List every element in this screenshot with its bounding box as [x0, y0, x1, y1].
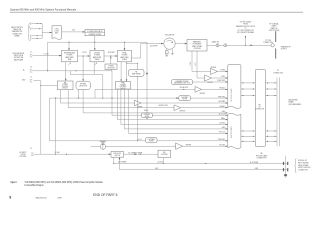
circulator: [164, 34, 175, 50]
wire regulator to supply bus: [94, 36, 96, 43]
circulator ground: [171, 49, 174, 55]
transmit RF output label: [281, 45, 291, 50]
ground bus: [120, 168, 284, 170]
svg-text:CONNECTOR: CONNECTOR: [255, 109, 264, 111]
svg-text:END OF PART 6: END OF PART 6: [93, 193, 118, 197]
svg-text:DETECTOR: DETECTOR: [79, 85, 87, 87]
line PA key with buffer D: [68, 104, 228, 113]
svg-text:8: 8: [9, 196, 11, 200]
svg-text:Figure 3:: Figure 3:: [11, 182, 17, 184]
svg-text:COUPLER: COUPLER: [193, 48, 201, 50]
wire box1 down to IPA control: [65, 62, 67, 81]
stub below coupler: [163, 158, 164, 164]
svg-text:1.2 mW: 1.2 mW: [43, 53, 49, 55]
svg-text:CTRL: CTRL: [55, 29, 59, 31]
vertical boxB down: [78, 90, 79, 99]
svg-text:1.2 mW: 1.2 mW: [55, 152, 61, 154]
caption figure 3: [11, 181, 104, 187]
vertical boxA to PA key: [67, 90, 69, 108]
svg-text:PWR SET: PWR SET: [218, 96, 225, 98]
svg-text:FILTER: FILTER: [182, 99, 187, 101]
svg-text:+28 VDC: +28 VDC: [219, 123, 226, 125]
svg-text:DETECTOR: DETECTOR: [107, 67, 115, 69]
svg-text:OUTPUT: OUTPUT: [281, 48, 287, 50]
directional coupler box: [158, 150, 171, 157]
svg-text:CONNECTOR: CONNECTOR: [12, 33, 23, 35]
svg-text:6881094C31-B: 6881094C31-B: [36, 198, 48, 200]
svg-text:40 W PEP: 40 W PEP: [108, 52, 115, 54]
wire box3 to circulator: [132, 44, 164, 58]
node: exciter RF input label: [20, 152, 28, 158]
temp sensor rounded box: [127, 62, 145, 141]
svg-text:BUFFER: BUFFER: [200, 93, 205, 95]
tall box T1a: PA interconnect upper: [228, 64, 241, 108]
node: coax cable text block: [269, 23, 280, 32]
wire torn box to regulator: [62, 31, 86, 33]
backplane P2 lines: [277, 77, 279, 146]
svg-text:TEMP SENSE: TEMP SENSE: [132, 73, 141, 75]
wire filter to antenna connector: [207, 44, 271, 46]
svg-text:SENSE: SENSE: [145, 116, 150, 118]
rounded box R1 on A+ line: [141, 109, 152, 118]
svg-text:4/98: 4/98: [58, 198, 62, 200]
amplifier box2: driver: [90, 50, 104, 61]
svg-text:SUPPLY MODULE: SUPPLY MODULE: [298, 167, 311, 169]
IPA power control box: [57, 81, 73, 90]
connector J2 pins: [29, 23, 52, 40]
svg-text:FROM CONTROL: FROM CONTROL: [11, 27, 23, 29]
line VFL adjust with buffer C: [95, 86, 228, 95]
svg-text:100 W PEP: 100 W PEP: [150, 46, 158, 48]
amplifier box1: IPA: [62, 50, 78, 61]
svg-text:POWER: POWER: [94, 55, 101, 57]
amplifier box3: final: [118, 50, 132, 61]
svg-text:POWER: POWER: [108, 66, 113, 68]
svg-text:FROM POWER: FROM POWER: [298, 165, 309, 167]
harmonic filter box: [187, 40, 207, 52]
node: control cable label block: [11, 27, 23, 37]
connector J1: [30, 51, 34, 57]
svg-text:FROM: FROM: [21, 154, 26, 156]
tall box T1b: PA interconnect lower: [228, 113, 241, 148]
header rule: [10, 11, 303, 13]
stubs below switch: [113, 157, 120, 170]
J5 wire to IPA control: [33, 81, 57, 86]
svg-text:MODULE DC: MODULE DC: [298, 160, 308, 162]
wire box2 to box3: [104, 55, 118, 57]
svg-text:CONNECTOR: CONNECTOR: [298, 170, 309, 172]
supply bus: [69, 42, 147, 50]
tall box T2: PA I/O connector: [255, 70, 265, 147]
final power control box: [116, 82, 131, 90]
svg-text:EXCITER: EXCITER: [20, 156, 27, 158]
vertical boxA to temp line: [59, 90, 61, 103]
RF detector rounded box: [76, 81, 90, 89]
line RF detect with buffer F: [91, 140, 228, 150]
circulator load resistor: [165, 49, 168, 57]
antenna feed bar upper: [275, 31, 276, 42]
small arrow below box1: [68, 63, 71, 66]
antenna feed bar lower: [275, 48, 276, 58]
svg-text:V FWD: V FWD: [190, 62, 192, 66]
node: modulated RF input label: [13, 52, 25, 61]
svg-text:DIR: DIR: [163, 152, 165, 154]
J4 connector: [23, 67, 33, 73]
svg-text:PIN DIODE: PIN DIODE: [114, 153, 121, 155]
svg-text:CIRCUIT: CIRCUIT: [62, 88, 68, 90]
svg-text:FROM: FROM: [243, 24, 248, 26]
torn box: control logic: [52, 26, 62, 40]
svg-text:FILTER: FILTER: [149, 141, 154, 143]
svg-text:9.6V: 9.6V: [72, 30, 75, 32]
svg-text:RF DET: RF DET: [220, 144, 226, 146]
V forward stub: [190, 51, 192, 71]
column stubs lower: [241, 130, 277, 131]
square connector on temp line: [146, 73, 148, 75]
svg-text:CONNECTOR: CONNECTOR: [273, 72, 284, 74]
vertical 89.4 line left end: [94, 89, 96, 98]
rounded box: forward power adjust: [172, 80, 228, 85]
line temp with buffer E: [60, 100, 227, 108]
wire circulator to harmonic filter: [175, 43, 187, 45]
svg-text:CONNECTOR: CONNECTOR: [257, 158, 268, 160]
second supply line: [70, 71, 103, 99]
svg-text:V RFL: V RFL: [221, 76, 226, 78]
svg-text:RF INPUT: RF INPUT: [20, 152, 27, 154]
svg-text:CONTROL: CONTROL: [120, 86, 127, 88]
svg-text:DRIVER: DRIVER: [94, 53, 101, 55]
svg-text:SPI CLK: SPI CLK: [219, 132, 226, 134]
V reflected stub: [195, 51, 197, 78]
column entry arrowheads: [226, 71, 228, 147]
pin diode switch box: [111, 151, 124, 157]
RF input wire: [34, 152, 112, 155]
line pwr set with low pass filter: [49, 96, 227, 101]
svg-text:INPUT FROM: INPUT FROM: [14, 55, 24, 57]
op-amp B reflected buffer: [197, 75, 228, 84]
J3 connector: [30, 148, 33, 156]
svg-text:9.6 V: 9.6 V: [138, 139, 142, 141]
wire box2 down: [93, 62, 95, 75]
line pwr set low with filter box: [49, 137, 227, 142]
DC power bus: [114, 162, 283, 164]
T2 bottom label: [256, 152, 268, 159]
svg-text:CONTROL: CONTROL: [62, 86, 69, 88]
J5 connector: [22, 77, 32, 83]
svg-text:POWER: POWER: [67, 55, 74, 57]
wire bus down to temp line: [146, 42, 148, 118]
wire arrow mid: [250, 45, 252, 47]
svg-text:BUFFER: BUFFER: [137, 106, 142, 108]
svg-text:PWR SET: PWR SET: [218, 139, 225, 141]
left vertical 40.8: [40, 86, 42, 155]
left vertical 49.4: [48, 98, 50, 141]
vertical boxB to gnd: [82, 56, 84, 81]
svg-text:B+ POWER: B+ POWER: [250, 162, 259, 164]
power detector small box: [105, 56, 117, 71]
svg-text:COUPLER: COUPLER: [161, 154, 168, 156]
N type connector label: [263, 40, 274, 44]
op-amp A forward buffer: [192, 67, 228, 75]
wire box1 to box2: [78, 55, 91, 57]
svg-text:‘N’ TYPE: ‘N’ TYPE: [265, 40, 271, 42]
wire J1 to IPA: [33, 55, 61, 57]
junction to control text: [245, 45, 246, 46]
svg-text:Functional Block Diagram: Functional Block Diagram: [24, 184, 43, 187]
bracket: [29, 23, 31, 40]
svg-text:J3: J3: [30, 148, 32, 150]
column stubs upper: [241, 82, 277, 83]
N connector: [271, 44, 274, 47]
cable connector symbols: [216, 44, 219, 47]
svg-text:CURRENT: CURRENT: [143, 114, 150, 116]
P2 label: [273, 70, 284, 74]
line gnd bus: [83, 111, 228, 113]
left vertical 55.6: [55, 98, 56, 155]
svg-text:SWITCH: SWITCH: [114, 155, 120, 157]
svg-text:SITE SYSTEM): SITE SYSTEM): [269, 30, 280, 32]
svg-text:P2: P2: [277, 70, 279, 72]
voltage regulator / current limiter box: [85, 30, 105, 37]
svg-text:V RFL: V RFL: [195, 62, 197, 66]
svg-text:Quantar 800 MHz and 900 MHz St: Quantar 800 MHz and 900 MHz Stations Fun…: [10, 7, 77, 11]
svg-text:INPUT POWER: INPUT POWER: [298, 162, 309, 164]
svg-text:‘N’ TYPE CONNECTOR: ‘N’ TYPE CONNECTOR: [237, 30, 254, 32]
svg-text:POWER: POWER: [122, 55, 129, 57]
wires box3 down to final control: [120, 62, 127, 82]
svg-text:POWER: POWER: [120, 84, 125, 86]
svg-text:J1: J1: [30, 51, 32, 53]
svg-text:J5: J5: [30, 77, 32, 79]
svg-text:TLF1930A (800 MHz) and TLF1950: TLF1930A (800 MHz) and TLF1950A (900 MHz…: [24, 181, 103, 184]
svg-text:POWER: POWER: [62, 84, 67, 86]
svg-text:1.25 W: 1.25 W: [82, 52, 87, 54]
J4 wire: [33, 70, 111, 71]
wire switch to coupler: [124, 152, 159, 155]
DC cable text block: [294, 159, 310, 173]
verticals final control down: [111, 71, 112, 115]
backplane label: [289, 98, 302, 105]
svg-text:V FWD: V FWD: [220, 70, 226, 72]
T1b feed lines: [112, 112, 228, 115]
svg-text:BUFFER: BUFFER: [180, 111, 185, 113]
node: output cable text block: [236, 21, 256, 34]
svg-text:J4: J4: [30, 67, 32, 69]
small arrow below box2: [94, 63, 97, 66]
svg-text:FWD PWR: FWD PWR: [218, 80, 227, 82]
svg-text:(REFERENCE SET POT): (REFERENCE SET POT): [174, 83, 190, 85]
vertical 147 dot: [146, 118, 147, 119]
DC entry connector: [283, 156, 288, 178]
